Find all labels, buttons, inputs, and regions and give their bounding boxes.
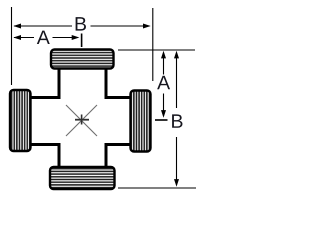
arrowhead A left [13,35,21,40]
label A left [37,31,50,44]
left hub [10,90,31,151]
arrowhead A down [161,110,166,118]
arrowhead B down [174,179,179,187]
center mark vertical tick [81,115,83,125]
left extension line [11,7,13,85]
arrowhead B left [13,24,21,29]
center mark diagonal 1 [66,105,97,136]
dimension line A horizontal left segment [14,37,34,39]
arrowhead A right [72,35,80,40]
bottom hub [50,167,115,189]
right extension line [152,8,154,81]
dimension line B vertical upper segment [176,53,178,108]
right hub [131,91,151,152]
top hub [51,50,114,69]
cross body [20,58,141,178]
label B right [172,114,182,127]
arrowhead B right [143,24,151,29]
arrowhead B up [174,51,179,59]
centerline tick top [81,34,83,48]
dimension line B horizontal left segment [14,25,72,27]
label A right [157,76,170,89]
top right extension line [118,49,195,51]
dimension line A vertical lower segment [163,94,165,116]
label B top [76,17,86,30]
center mark horizontal tick [75,119,89,121]
dimension line B horizontal right segment [91,25,150,27]
dimension line A horizontal right segment [53,37,79,39]
dimension line B vertical lower segment [176,137,178,185]
dimension line A vertical upper segment [163,53,165,75]
arrowhead A up [161,51,166,59]
center mark diagonal 2 [66,105,97,136]
centerline tick right [155,119,168,121]
bottom extension line [118,187,196,189]
